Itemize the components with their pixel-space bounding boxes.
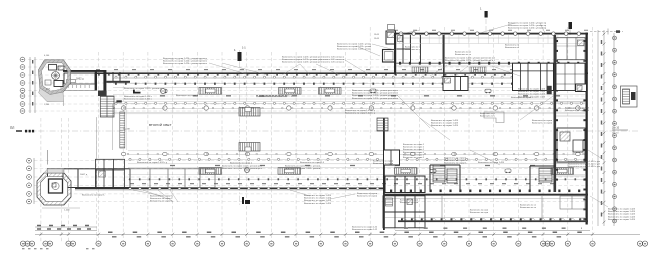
- detail box right: [621, 86, 638, 107]
- dimension numbers: [108, 231, 592, 233]
- svg-text:Выполнить по серии: Выполнить по серии: [357, 196, 377, 198]
- car symbols bottom band: [245, 168, 250, 173]
- svg-text:Выполнить по серии 1.: Выполнить по серии 1.: [82, 195, 105, 197]
- top band small texts: [160, 95, 560, 97]
- wing band east rooms: [513, 63, 587, 94]
- bottom band top line: [128, 150, 585, 152]
- grid horizontal axes: [28, 60, 588, 202]
- corridor blocks wing: [412, 67, 428, 72]
- svg-text:Выполнить по серии: Выполнить по серии: [373, 163, 393, 165]
- svg-text:4,100: 4,100: [44, 55, 50, 57]
- svg-text:Выполнить по серии 1.424 с у: Выполнить по серии 1.424 с у: [137, 162, 167, 164]
- block north wall: [63, 70, 106, 72]
- svg-text:Выполнить по серии: Выполнить по серии: [532, 123, 552, 125]
- svg-text:1,240: 1,240: [44, 104, 50, 106]
- bottom band big ovals row: [128, 154, 585, 156]
- escalator blocks top band: [199, 88, 222, 95]
- section marker top x570: [569, 22, 573, 29]
- svg-text:Выполнить по серии 1.: Выполнить по серии 1.: [444, 163, 467, 165]
- wing interior wall y63: [396, 62, 585, 64]
- bottom band column squares: [128, 178, 585, 180]
- svg-text:1-1: 1-1: [242, 46, 246, 50]
- wing bottom rooms row: [385, 176, 425, 193]
- bottom band column row 3: [128, 158, 585, 160]
- wing west wall lower: [383, 118, 385, 230]
- svg-text:Выполнить по серии 1.424 с узл: Выполнить по серии 1.424 с узлами крепле…: [445, 63, 496, 65]
- section line 2-2 vertical: [239, 50, 241, 205]
- heavy duct mark top band: [133, 90, 141, 94]
- top band column squares: [113, 83, 585, 85]
- connector walls: [96, 117, 98, 159]
- top band: north wall: [96, 70, 588, 72]
- top band column row 1: [114, 76, 585, 78]
- stair block lower center: [239, 143, 260, 152]
- svg-text:Выполнить по серии 1.424 с узл: Выполнить по серии 1.424 с узлами кр: [508, 28, 547, 30]
- svg-text:Выполнить по серии 1.4: Выполнить по серии 1.4: [300, 162, 325, 164]
- garage door arcs: [402, 218, 585, 220]
- svg-text:Выполнить по серии 1.424 с у: Выполнить по серии 1.424 с у: [345, 113, 375, 115]
- wall x104: [103, 70, 106, 96]
- svg-text:Выполнить по серии 1: Выполнить по серии 1: [403, 157, 425, 159]
- svg-text:Выполнить по сери: Выполнить по сери: [400, 202, 418, 204]
- dimension under wing: [395, 229, 590, 231]
- leader lines: [133, 23, 608, 207]
- wall x95: [95, 70, 97, 91]
- svg-text:Выполнить по серии 1.424 с узл: Выполнить по серии 1.424 с узлами креп: [222, 168, 262, 170]
- svg-text:Выполнить по серии 1: Выполнить по серии 1: [230, 163, 253, 165]
- room block E bottom: [130, 169, 215, 188]
- svg-text:Выполнить по серии 1.424 с узл: Выполнить по серии 1.424 с узлами: [285, 168, 320, 170]
- middle light room: [484, 112, 504, 123]
- room block D bottom left: [48, 169, 131, 188]
- right wing north wall: [394, 33, 588, 35]
- svg-text:Выполнить по се: Выполнить по се: [405, 49, 422, 51]
- wing south wall: [390, 190, 580, 193]
- svg-text:Выполнить по серии 1.424 с узл: Выполнить по серии 1.424 с узл: [568, 166, 601, 168]
- svg-text:ПЛ: ПЛ: [10, 126, 14, 130]
- stair at wing west: [377, 118, 388, 131]
- dimension lines bottom: [35, 227, 640, 234]
- grid bubbles right: [613, 36, 617, 223]
- svg-text:Выполнить по серии 1.424 с узл: Выполнить по серии 1.424 с узлами крепле…: [163, 63, 207, 65]
- svg-text:Выполнить по серии 1.424 с: Выполнить по серии 1.424 с: [124, 99, 152, 101]
- svg-text:ВТОРОЙ СВЕТ: ВТОРОЙ СВЕТ: [149, 123, 172, 127]
- svg-text:Выполнить по серии 1.424 с узл: Выполнить по серии 1.424 с узлами крепле…: [282, 62, 345, 64]
- svg-text:19-08: 19-08: [374, 34, 379, 36]
- top band column row 2: [114, 102, 585, 104]
- top band escalator zone lines: [113, 88, 585, 102]
- svg-text:19-08: 19-08: [374, 38, 379, 40]
- wing core rooms in band: [443, 77, 468, 91]
- main stair down: [100, 96, 114, 117]
- bottom band south wall: [75, 188, 385, 190]
- tower top octagon: [39, 60, 71, 95]
- junction block: [98, 91, 107, 97]
- right wing east wall: [586, 33, 588, 225]
- wing hall beam texture: [400, 35, 578, 44]
- section line 1-1: [16, 130, 640, 132]
- rooms x95-124 bottom band: [96, 159, 125, 187]
- svg-text:Выполнить по серии 1.424: Выполнить по серии 1.424: [608, 219, 636, 221]
- svg-text:Выполнить по серии 1.424 с узл: Выполнить по серии 1.424 с узлами креп: [124, 88, 164, 90]
- annotation texts: [163, 58, 207, 65]
- bottom band text rows: [170, 165, 540, 167]
- svg-text:Выполнить по се: Выполнить по се: [455, 54, 472, 56]
- wing middle stairs: [433, 165, 445, 182]
- tower top skirt: [39, 88, 64, 102]
- wing garage south wall: [398, 220, 588, 222]
- svg-text:Выполнить по се: Выполнить по се: [520, 207, 537, 209]
- svg-text:Выполнить по серии 1.: Выполнить по серии 1.: [150, 201, 173, 203]
- svg-text:Выполнить по серии 1: Выполнить по серии 1: [511, 97, 534, 99]
- svg-text:Выполнить по серии 1.4: Выполнить по серии 1.4: [565, 110, 590, 112]
- wing NE corner rooms: [557, 38, 586, 60]
- wing west inner rooms: [397, 35, 444, 63]
- svg-text:Выполнить по серии 1: Выполнить по серии 1: [176, 95, 199, 97]
- grid bubbles left top group: [20, 57, 31, 204]
- left edge wall top: [47, 150, 49, 165]
- strip room below: [61, 84, 95, 91]
- tower bottom octagon: [37, 173, 71, 205]
- svg-text:Выполнить по сери: Выполнить по сери: [470, 212, 488, 214]
- svg-text:1Н07 д: 1Н07 д: [80, 174, 88, 176]
- svg-text:Выполнить по: Выполнить по: [505, 47, 520, 49]
- lower-left corner block: [383, 196, 425, 228]
- svg-text:Выполнить по с: Выполнить по с: [480, 116, 495, 118]
- svg-text:1Н02 д: 1Н02 д: [76, 79, 84, 81]
- svg-text:2тл 10: 2тл 10: [612, 133, 619, 135]
- svg-text:1,200: 1,200: [64, 210, 70, 212]
- bottom band text row: [130, 183, 560, 185]
- wing NW protrusion rooms: [388, 25, 395, 30]
- room A big: [64, 73, 95, 84]
- right wing west wall: [394, 33, 396, 75]
- top right dim line: [590, 31, 623, 33]
- svg-text:Выполнить по серии 1.424 с у: Выполнить по серии 1.424 с у: [262, 96, 292, 98]
- wing east rooms: [556, 46, 585, 176]
- top band big columns row: [113, 108, 585, 110]
- svg-text:2тл 10: 2тл 10: [612, 127, 620, 130]
- svg-text:Выполнить по серии 1.424: Выполнить по серии 1.424: [431, 125, 459, 127]
- escalator blocks bottom band: [199, 168, 222, 174]
- car symbols top band: [161, 89, 167, 93]
- SE rooms garage: [560, 196, 585, 209]
- svg-text:Выполнить по серии 1.424 с узл: Выполнить по серии 1.424 с узлам: [337, 49, 372, 51]
- wing interior wall x554: [554, 35, 557, 192]
- svg-text:Выполнить по серии 1.424: Выполнить по серии 1.424: [304, 203, 332, 205]
- stair block upper center: [239, 108, 260, 117]
- svg-text:Выполнить по серии 1.424 с узл: Выполнить по серии 1.424 с узлами крепле…: [352, 98, 398, 100]
- wing west mid rooms: [384, 150, 400, 165]
- rooms 106-130: [106, 72, 130, 83]
- section marker top x485: [485, 12, 487, 33]
- dimension lines right: [598, 30, 614, 226]
- svg-text:Выполнить по серии 1.42: Выполнить по серии 1.42: [352, 229, 378, 231]
- stair ladder left connector: [113, 104, 127, 150]
- grid vertical axes: [41, 27, 593, 242]
- tower bottom link: [44, 169, 64, 173]
- svg-text:Выполнить по серии 1.424: Выполнить по серии 1.424: [478, 162, 505, 164]
- grid bubbles bottom: [20, 241, 647, 246]
- wing garage strip: [385, 199, 586, 218]
